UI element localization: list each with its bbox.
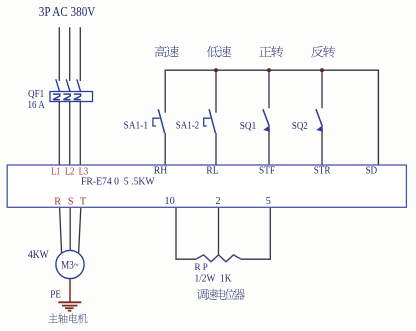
svg-text:R P: R P (195, 263, 208, 273)
wire phase L3 to inverter (79, 102, 81, 166)
wire S to motor (69, 208, 71, 251)
wire T to motor (79, 208, 81, 253)
wire SQ2 lower (321, 131, 323, 165)
svg-text:SA1-2: SA1-2 (176, 120, 200, 132)
switch SQ1 arrowhead (263, 125, 270, 132)
svg-text:16 A: 16 A (28, 100, 46, 111)
svg-text:T: T (80, 196, 87, 207)
label zhengzhuan (forward) (259, 46, 271, 56)
motor M1 circle (56, 250, 84, 278)
breaker QF1 blade pole 2 (66, 79, 70, 91)
wire phase L2 to inverter (69, 102, 71, 166)
wire phase L1 to inverter (58, 102, 60, 166)
bus wire to SD terminal (165, 70, 379, 165)
breaker QF1 pole symbol 2 (63, 94, 70, 100)
svg-text:SQ1: SQ1 (240, 120, 256, 132)
svg-text:STF: STF (259, 165, 275, 176)
switch SQ1 blade (263, 109, 269, 126)
wire SQ1 upper (268, 70, 270, 108)
svg-text:S: S (68, 196, 74, 207)
wire R to motor (60, 208, 62, 253)
wire terminal 5 to RP (241, 208, 270, 259)
svg-text:L2: L2 (65, 167, 75, 178)
label tiaosu dianweiqi (speed potentiometer) (197, 289, 207, 300)
switch SA1-1 blade (158, 109, 164, 133)
svg-text:2: 2 (215, 196, 220, 207)
switch SQ2 blade (316, 109, 322, 126)
ground symbol (58, 302, 81, 310)
breaker QF1 pole symbol 1 (53, 94, 60, 100)
switch SA1-1 handle hook (153, 118, 160, 126)
svg-text:3P AC 380V: 3P AC 380V (39, 4, 96, 19)
svg-text:STR: STR (314, 165, 331, 176)
wire SA1-1 lower (164, 133, 166, 165)
switch SQ2 arrowhead (316, 125, 323, 132)
label disu (low speed) (207, 46, 219, 57)
svg-text:10: 10 (165, 196, 175, 207)
svg-text:RH: RH (154, 165, 168, 176)
svg-text:4KW: 4KW (28, 249, 49, 261)
switch SA1-2 blade (209, 109, 215, 133)
label fanzhuan (reverse) (311, 46, 324, 57)
svg-text:PE: PE (50, 289, 61, 300)
wire terminal 2 to RP wiper (218, 208, 220, 255)
svg-text:M3~: M3~ (61, 260, 79, 272)
svg-text:SA1-1: SA1-1 (124, 120, 149, 132)
wire SA1-2 lower (215, 133, 217, 165)
switch SA1-2 handle hook (204, 118, 211, 126)
wire motor to ground (PE) (69, 279, 71, 303)
svg-text:R: R (54, 196, 61, 207)
svg-text:SD: SD (365, 165, 377, 176)
label gaosu (high speed) (155, 46, 167, 58)
svg-text:L1: L1 (51, 167, 60, 178)
wire phase L3 top (79, 27, 81, 81)
svg-text:5: 5 (266, 196, 271, 207)
svg-text:1/2W 1K: 1/2W 1K (195, 274, 233, 285)
svg-text:5 .5KW: 5 .5KW (124, 175, 155, 187)
svg-text:RL: RL (206, 165, 219, 176)
junction node at STR branch (320, 68, 324, 72)
svg-text:QF1: QF1 (28, 88, 44, 100)
junction node at STF branch (267, 68, 271, 72)
breaker QF1 box (50, 92, 93, 102)
svg-text:FR-E74 0: FR-E74 0 (81, 175, 119, 187)
wire terminal 10 to RP (176, 208, 196, 259)
wire SA1-2 upper (215, 70, 217, 113)
junction node at RL branch (214, 68, 218, 72)
wire SA1-1 upper (164, 70, 166, 113)
breaker QF1 blade pole 1 (56, 79, 60, 91)
wire phase L2 top (69, 27, 71, 81)
wire phase L1 top (58, 27, 60, 81)
inverter U1 FR-E740 box (7, 165, 406, 207)
wire SQ2 upper (321, 70, 323, 108)
label zhuzhou dianji (spindle motor) (48, 314, 57, 323)
potentiometer RP zigzag (196, 255, 241, 262)
breaker QF1 pole symbol 3 (74, 94, 81, 100)
svg-text:SQ2: SQ2 (292, 120, 308, 132)
wire SQ1 lower (268, 131, 270, 165)
breaker QF1 blade pole 3 (77, 79, 81, 91)
